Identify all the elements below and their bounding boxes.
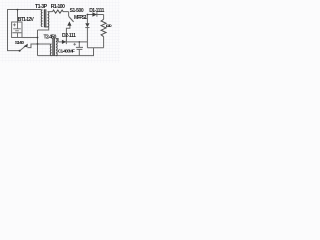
- svg-text:R1-100: R1-100: [51, 4, 65, 10]
- svg-text:S1-50: S1-50: [15, 40, 25, 46]
- svg-text:T2-450: T2-450: [44, 34, 57, 40]
- svg-text:LOAD: LOAD: [106, 24, 112, 28]
- svg-text:D1-1111: D1-1111: [89, 8, 104, 14]
- svg-text:BT1-12V: BT1-12V: [18, 17, 35, 23]
- svg-text:D2-111: D2-111: [62, 33, 76, 39]
- svg-text:T1-3P: T1-3P: [35, 4, 48, 10]
- svg-text:S1-500: S1-500: [70, 8, 84, 14]
- svg-text:C1-400MF: C1-400MF: [58, 48, 75, 53]
- svg-text:MFPS1: MFPS1: [74, 15, 87, 21]
